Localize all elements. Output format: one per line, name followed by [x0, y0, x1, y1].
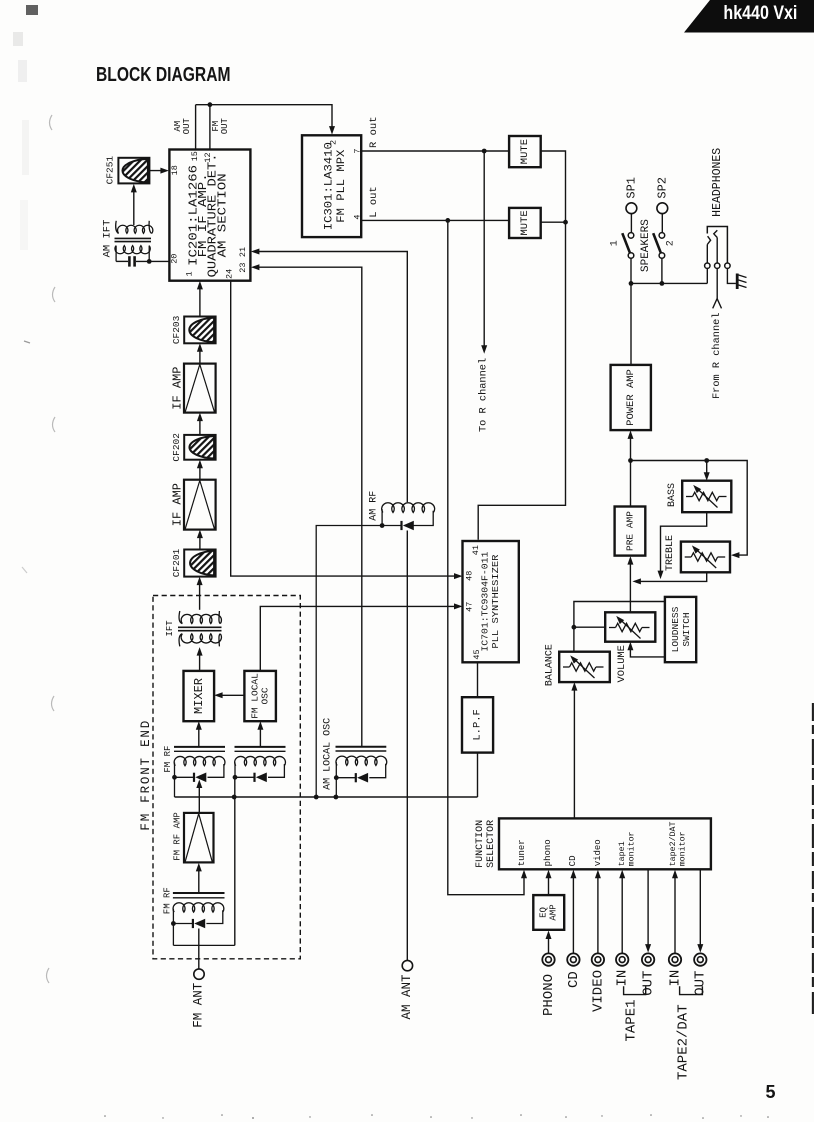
wire LPF to tuning line: [477, 753, 479, 797]
svg-text:CF201: CF201: [171, 548, 182, 577]
junction dot at AM IFT right lead: [147, 259, 152, 264]
svg-text:21: 21: [238, 247, 248, 257]
svg-text:L out: L out: [368, 186, 380, 218]
headphone jack J1 HEADPHONES: [707, 227, 727, 263]
label 2: [666, 240, 677, 246]
potentiometer box BASS: [682, 481, 731, 513]
jack PHONO: [542, 953, 554, 965]
label CD input: [568, 855, 578, 866]
pin 45 label: [472, 649, 482, 659]
junction dot tuning line FM tanks: [232, 795, 237, 800]
svg-text:monitor: monitor: [627, 831, 637, 866]
label FM OUT: [211, 117, 230, 134]
svg-text:IF AMP: IF AMP: [171, 366, 185, 409]
wire TREBLE output: [632, 572, 706, 584]
label PHONO: [541, 974, 557, 1016]
filter block L.P.F: [462, 697, 493, 752]
svg-text:MUTE: MUTE: [519, 139, 531, 164]
svg-text:PLL SYNTHESIZER: PLL SYNTHESIZER: [491, 554, 501, 649]
svg-text:24: 24: [224, 269, 234, 279]
svg-text:2: 2: [328, 140, 338, 145]
pin 1 label: [184, 271, 194, 276]
pin 20 label: [169, 254, 179, 264]
IC U301 IC301:LA3410 FM PLL MPX: [302, 135, 361, 237]
svg-text:TREBLE: TREBLE: [665, 535, 676, 571]
label SP1: [624, 177, 638, 199]
svg-text:tuner: tuner: [517, 839, 527, 866]
varactor diode AM RF: [402, 521, 414, 531]
svg-text:hk440 Vxi: hk440 Vxi: [723, 3, 797, 24]
wire TAPE1 IN jack to selector with arrow: [619, 870, 625, 954]
varactor diode FM RF upper: [194, 773, 206, 783]
pin 18 label: [170, 165, 180, 175]
capacitor C251: [129, 256, 134, 266]
wire IC201 pin 21 to AM RF: [257, 252, 408, 503]
label video: [593, 839, 603, 866]
label tape1 monitor: [618, 831, 637, 866]
junction dot balance out: [572, 625, 577, 630]
IC U701 IC701:TC9304F-011 PLL SYNTHESIZER: [463, 541, 519, 662]
mute block MUTE1: [509, 136, 541, 167]
svg-text:23: 23: [238, 262, 248, 272]
tuned circuit FM RF upper: [174, 747, 225, 797]
potentiometer box TREBLE: [681, 542, 730, 573]
svg-text:tape2/DAT: tape2/DAT: [668, 821, 678, 866]
svg-text:OUT: OUT: [182, 117, 192, 134]
svg-text:5: 5: [765, 1082, 775, 1102]
speaker terminal SP1: [626, 203, 637, 214]
svg-text:BASS: BASS: [667, 483, 678, 507]
wire CD jack to selector with arrow: [570, 870, 576, 954]
svg-text:1: 1: [610, 240, 621, 246]
headphone contact ring: [715, 263, 720, 268]
svg-text:From R channel: From R channel: [711, 312, 723, 399]
junction dot preamp out: [628, 458, 633, 463]
wire PHONO jack to EQ AMP with arrow: [546, 931, 552, 954]
wire tone feed bus: [631, 461, 748, 556]
svg-text:PHONO: PHONO: [541, 974, 557, 1016]
label CF201: [171, 548, 182, 577]
label R out: [368, 116, 380, 148]
amplifier PRE AMP: [615, 507, 646, 556]
pin 21 label: [238, 247, 248, 257]
label FM FRONT END: [139, 719, 153, 831]
tuned circuit FM RF lower: [173, 893, 235, 945]
wire sleeve contact to chassis ground: [727, 268, 736, 283]
jack TAPE2 OUT: [694, 953, 706, 965]
label CD: [566, 971, 582, 988]
label VIDEO: [590, 970, 606, 1012]
antenna terminal FM ANT: [194, 969, 204, 979]
banner hk440 Vxi: [684, 0, 814, 33]
pin 4 label: [353, 215, 363, 220]
label tape2/DAT monitor: [668, 821, 688, 866]
bracket TAPE2/DAT: [680, 986, 703, 994]
pin 2 label: [328, 140, 338, 145]
wire balance out to LOUDNESS SWITCH: [574, 602, 665, 628]
junction dot bus SP1: [629, 281, 634, 286]
scan noise right edge: [812, 703, 814, 1014]
svg-text:EQ: EQ: [539, 907, 549, 918]
svg-text:2: 2: [666, 240, 677, 246]
svg-text:SWITCH: SWITCH: [681, 612, 692, 646]
svg-text:18: 18: [170, 165, 180, 175]
label TAPE1 IN: [615, 970, 631, 987]
svg-text:FM RF: FM RF: [163, 746, 173, 773]
label TAPE1: [623, 999, 639, 1041]
svg-text:POWER AMP: POWER AMP: [625, 369, 637, 426]
svg-text:AM RF: AM RF: [368, 491, 379, 521]
wire L channel to tuner input with arrow: [448, 220, 527, 894]
svg-text:7: 7: [353, 149, 363, 154]
plug tip symbol from R channel: [713, 299, 722, 309]
wire CF251 to IC201 pin 18 with arrow: [149, 168, 169, 174]
label FM ANT: [192, 982, 206, 1028]
junction dot R out: [482, 149, 487, 154]
amplifier FM RF AMP: [184, 813, 214, 863]
ceramic filter CF251: [118, 158, 149, 184]
wire CF203 to IC201 pin 1 with arrow: [197, 281, 203, 317]
wire FM LOCAL OSC to MIXER with arrow: [214, 692, 244, 698]
jack TAPE1 OUT: [642, 953, 654, 965]
varactor diode FM RF lower: [193, 919, 205, 929]
scan noise left margin: [22, 115, 55, 983]
junction dot FM RF lower: [171, 921, 176, 926]
svg-text:47: 47: [464, 602, 474, 612]
wire IF AMP2 to CF203 with arrow: [197, 343, 203, 363]
svg-text:FM RF: FM RF: [163, 887, 173, 914]
wire FM ANT to lower tank: [198, 929, 200, 970]
label phono: [543, 839, 553, 866]
wire pin 12 FM OUT up: [209, 105, 211, 150]
junction dot FM OUT: [208, 102, 213, 107]
svg-text:VOLUME: VOLUME: [616, 645, 628, 682]
wire LOUDNESS SWITCH to VOLUME with arrow: [627, 642, 665, 657]
svg-text:12: 12: [203, 152, 213, 162]
tuned circuit AM RF: [316, 503, 434, 797]
svg-text:PRE AMP: PRE AMP: [625, 511, 636, 551]
wire mute control to IC701 pin 41: [478, 222, 565, 540]
wire BALANCE out to VOLUME: [574, 627, 605, 652]
wire selector to TAPE2 OUT jack with arrow: [697, 869, 703, 952]
pin 7 label: [353, 149, 363, 154]
svg-text:AM IFT: AM IFT: [102, 220, 114, 258]
bracket TAPE1: [624, 986, 646, 994]
arrow into TREBLE right side: [731, 552, 740, 558]
transformer T251 AM IFT: [115, 221, 153, 262]
junction dot FM RF upper: [172, 775, 177, 780]
svg-text:tape1: tape1: [618, 841, 627, 866]
label To R channel: [478, 358, 490, 432]
junction dot tuning line AM RF: [314, 795, 319, 800]
wire FM RF tank to MIXER with arrow: [196, 721, 202, 747]
antenna terminal AM ANT: [402, 960, 412, 970]
svg-text:45: 45: [472, 649, 482, 659]
label AM ANT: [400, 974, 414, 1020]
label TAPE2/DAT: [675, 1004, 691, 1080]
svg-text:VIDEO: VIDEO: [590, 970, 606, 1012]
svg-text:OUT: OUT: [220, 117, 230, 134]
svg-text:IC701:TC9304F-011: IC701:TC9304F-011: [481, 552, 491, 652]
svg-text:HEADPHONES: HEADPHONES: [711, 148, 724, 217]
svg-text:video: video: [593, 839, 603, 866]
junction dot AM RF: [380, 523, 385, 528]
wire EQ AMP to phono input with arrow: [546, 870, 552, 895]
svg-text:AM ANT: AM ANT: [400, 974, 414, 1020]
svg-text:OSC: OSC: [260, 687, 271, 704]
label SP2: [655, 177, 669, 199]
svg-text:OUT: OUT: [641, 971, 657, 996]
label FUNCTION SELECTOR: [475, 820, 497, 868]
label tuner: [517, 839, 527, 866]
wire pin 15 AM OUT up: [195, 105, 197, 150]
jack VIDEO: [592, 953, 604, 965]
headphone contact sleeve: [725, 263, 730, 268]
jack CD: [567, 953, 579, 965]
label IFT: [165, 620, 175, 637]
svg-text:FM ANT: FM ANT: [192, 982, 206, 1028]
wire IF AMP1 to CF202 with arrow: [197, 460, 203, 480]
wire FM LOCAL OSC to IC701 pin 47 with arrow: [260, 603, 462, 671]
pin 24 label: [224, 269, 234, 279]
ceramic filter CF203: [184, 317, 215, 344]
label BALANCE: [545, 644, 556, 686]
wire CF202 to IF AMP2 with arrow: [197, 413, 203, 435]
svg-text:IFT: IFT: [165, 620, 175, 637]
svg-text:4: 4: [353, 215, 363, 220]
svg-text:LOUDNESS: LOUDNESS: [670, 606, 681, 652]
title BLOCK DIAGRAM: [96, 63, 231, 86]
wire VOLUME to PRE AMP with arrow: [627, 556, 633, 612]
svg-text:CD: CD: [566, 971, 582, 988]
junction dot bass feed: [704, 458, 709, 463]
potentiometer box VOLUME: [605, 612, 655, 641]
wire To R channel with arrow: [481, 151, 487, 354]
scan noise bottom dust: [104, 1114, 769, 1119]
wire local osc tank lead down to lower tank: [234, 777, 236, 945]
selector block FUNCTION SELECTOR: [499, 818, 711, 869]
amplifier IF AMP 2: [184, 364, 216, 413]
wire IFT to CF201 with arrow: [197, 577, 203, 610]
svg-text:TAPE1: TAPE1: [623, 999, 639, 1041]
label From R channel: [711, 312, 723, 399]
wire CF201 to IF AMP1 with arrow: [197, 530, 203, 550]
arrow into IC201 pin 21: [251, 249, 260, 255]
mute block MUTE2: [509, 208, 541, 238]
junction dot bus SP2: [660, 281, 665, 286]
svg-text:AM LOCAL OSC: AM LOCAL OSC: [322, 718, 333, 790]
svg-text:SP2: SP2: [655, 177, 669, 199]
pin 47 label: [464, 602, 474, 612]
wire local osc tank to FM LOCAL OSC with arrow: [257, 721, 263, 747]
label TAPE2 IN: [667, 970, 683, 987]
svg-text:1: 1: [184, 271, 194, 276]
ceramic filter CF201: [184, 550, 215, 577]
svg-text:15: 15: [190, 151, 200, 161]
label VOLUME: [616, 645, 628, 682]
svg-text:CF203: CF203: [171, 315, 182, 344]
wire L out to MUTE2: [361, 219, 509, 221]
wire MIXER to IFT with arrow: [197, 647, 203, 671]
svg-text:CF202: CF202: [171, 433, 182, 462]
wire AM IFT tap to CF251 with arrow: [131, 184, 137, 225]
wire AM ANT to AM RF: [406, 531, 408, 961]
varactor diode FM LOCAL OSC tank: [255, 773, 267, 783]
svg-text:FM PLL MPX: FM PLL MPX: [336, 149, 348, 222]
label FM RF upper: [163, 746, 173, 773]
label TREBLE: [665, 535, 676, 571]
svg-text:IC301:LA3410: IC301:LA3410: [324, 142, 336, 230]
label BASS: [667, 483, 678, 507]
svg-text:20: 20: [169, 254, 179, 264]
wire BASS output: [658, 512, 707, 579]
wire down to BASS with arrow: [704, 461, 710, 481]
svg-text:monitor: monitor: [678, 831, 688, 866]
label SPEAKERS: [640, 219, 652, 272]
label TAPE2 OUT: [693, 971, 709, 996]
ceramic filter CF202: [184, 435, 215, 460]
svg-text:FUNCTION: FUNCTION: [475, 820, 486, 868]
pin 23 label: [238, 262, 248, 272]
label HEADPHONES: [711, 148, 724, 217]
svg-text:41: 41: [471, 545, 481, 555]
pin 15 label: [190, 151, 200, 161]
wire selector to TAPE1 OUT jack with arrow: [645, 869, 651, 952]
tuned circuit FM LOCAL OSC tank: [235, 747, 286, 777]
svg-text:FM RF AMP: FM RF AMP: [172, 812, 182, 861]
svg-text:CF251: CF251: [104, 156, 115, 185]
wire top bus to IC301 pin 2: [196, 105, 335, 135]
label FM RF AMP: [172, 812, 182, 861]
loudness switch box LOUDNESS SWITCH: [665, 597, 696, 662]
label 1: [610, 240, 621, 246]
pin 48 label: [464, 571, 474, 581]
potentiometer box BALANCE: [559, 652, 610, 682]
pin 41 label: [471, 545, 481, 555]
label AM LOCAL OSC: [322, 718, 333, 790]
label AM IFT: [102, 220, 114, 258]
pin 12 label: [203, 152, 213, 162]
headphone contact tip: [705, 263, 710, 268]
svg-text:CD: CD: [568, 855, 578, 866]
svg-text:SELECTOR: SELECTOR: [486, 820, 497, 868]
svg-text:MUTE: MUTE: [519, 210, 531, 235]
wire IC201 pin 23 to AM LOCAL OSC: [257, 267, 362, 747]
amplifier EQ AMP: [533, 895, 564, 930]
svg-text:IF AMP: IF AMP: [171, 483, 185, 526]
wire FM RF AMP to FM RF tank with arrow: [196, 780, 202, 813]
arrow into IC201 pin 23: [251, 264, 260, 270]
wire PRE AMP to POWER AMP with arrow: [628, 430, 634, 506]
svg-text:SPEAKERS: SPEAKERS: [640, 219, 652, 272]
chassis ground: [737, 274, 747, 290]
wire tip contact to bus: [706, 268, 708, 283]
svg-text:AMP: AMP: [549, 904, 559, 920]
svg-text:To R channel: To R channel: [478, 358, 490, 432]
svg-text:BLOCK DIAGRAM: BLOCK DIAGRAM: [96, 63, 231, 86]
wire VIDEO jack to selector with arrow: [595, 870, 601, 954]
svg-text:R out: R out: [368, 116, 380, 148]
jack TAPE1 IN: [616, 953, 628, 965]
page number 5: [765, 1082, 775, 1102]
speaker terminal SP2: [657, 203, 668, 214]
wire lower tank to FM RF AMP with arrow: [196, 863, 202, 893]
label FM RF lower: [163, 887, 173, 914]
svg-text:OUT: OUT: [693, 971, 709, 996]
label CF202: [171, 433, 182, 462]
junction dot AM LOCAL OSC: [334, 775, 339, 780]
IC U201 IC201:LA1266 FM IF AMP. QUADRATURE DET. AM SECTION: [169, 150, 250, 281]
junction dot MUTE outputs: [563, 220, 568, 225]
wire ring contact to From R channel plug: [716, 268, 718, 298]
junction dot L out: [445, 218, 450, 223]
label L out: [368, 186, 380, 218]
label CF251: [104, 156, 115, 185]
svg-text:BALANCE: BALANCE: [545, 644, 556, 686]
label CF203: [171, 315, 182, 344]
tuned circuit AM LOCAL OSC: [336, 747, 387, 797]
svg-text:TAPE2/DAT: TAPE2/DAT: [675, 1004, 691, 1080]
wire TAPE2 IN jack to selector with arrow: [672, 870, 678, 954]
wire IC201 pin 24 to IC701 pin 48 with arrow: [231, 281, 463, 579]
switch S2 speaker 2: [653, 214, 665, 284]
amplifier POWER AMP: [611, 365, 651, 430]
junction dot tuning line AM LOCAL OSC: [334, 795, 339, 800]
svg-text:48: 48: [464, 571, 474, 581]
label AM OUT: [173, 117, 192, 134]
varactor diode AM LOCAL OSC: [356, 773, 368, 783]
mixer block MIXER: [184, 671, 215, 721]
svg-text:SP1: SP1: [624, 177, 638, 199]
amplifier IF AMP 1: [184, 480, 216, 530]
wire POWER AMP to speaker bus: [630, 283, 632, 365]
wire FUNCTION SELECTOR to BALANCE with arrow: [571, 682, 577, 818]
label AM RF: [368, 491, 379, 521]
svg-text:IN: IN: [667, 970, 683, 987]
label IF AMP 2: [171, 366, 185, 409]
jack TAPE2 IN: [669, 953, 681, 965]
transformer IFT: [178, 611, 222, 646]
svg-text:phono: phono: [543, 839, 553, 866]
oscillator block FM LOCAL OSC: [244, 671, 276, 721]
svg-text:L.P.F: L.P.F: [472, 709, 484, 741]
wire varactor tuning line: [175, 796, 478, 798]
wire AM IFT to IC201 pin 20: [116, 260, 169, 262]
scan noise top left: [13, 5, 38, 250]
wire MUTE2 output: [541, 221, 566, 223]
label IF AMP 1: [171, 483, 185, 526]
dashed box FM FRONT END: [153, 596, 300, 959]
label TAPE1 OUT: [641, 971, 657, 996]
wire R out to MUTE1: [361, 150, 509, 152]
svg-text:FM FRONT END: FM FRONT END: [139, 719, 153, 831]
svg-text:IN: IN: [615, 970, 631, 987]
junction dot FM LOCAL OSC tank: [233, 775, 238, 780]
wire speaker bus: [631, 282, 707, 284]
wire IC701 pin 45 to LPF: [477, 662, 479, 697]
wire MUTE1 output: [541, 151, 566, 222]
svg-text:MIXER: MIXER: [192, 678, 206, 714]
switch S1 speaker 1: [622, 214, 634, 284]
svg-text:AM SECTION: AM SECTION: [216, 173, 229, 257]
